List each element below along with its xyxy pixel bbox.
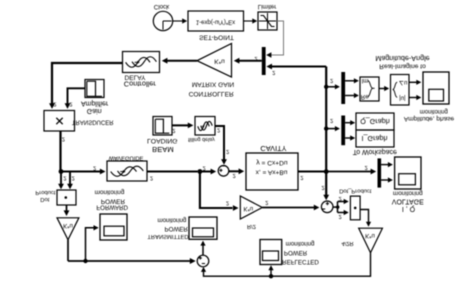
svg-text:2: 2 xyxy=(272,69,275,75)
svg-text:monitoring: monitoring xyxy=(157,216,186,223)
svg-text:TRANSMITTED: TRANSMITTED xyxy=(147,233,188,239)
svg-text:Controller: Controller xyxy=(124,80,157,89)
svg-text:monitoring: monitoring xyxy=(286,240,315,247)
svg-text:CONTROLLER: CONTROLLER xyxy=(189,90,234,97)
svg-text:2: 2 xyxy=(203,164,206,170)
svg-text:CAVITY: CAVITY xyxy=(260,144,286,153)
svg-text:x, = Ax+Bu: x, = Ax+Bu xyxy=(256,168,288,175)
svg-text:2: 2 xyxy=(69,100,72,106)
svg-text:2: 2 xyxy=(365,164,368,170)
svg-text:2: 2 xyxy=(93,165,96,171)
svg-text:BEAM: BEAM xyxy=(152,145,174,154)
svg-text:2: 2 xyxy=(300,174,303,180)
svg-text:REFLECTED: REFLECTED xyxy=(282,258,319,265)
svg-text:To Workspace: To Workspace xyxy=(353,148,397,155)
svg-text:Gain: Gain xyxy=(87,107,102,114)
svg-text:MATRIX GAIN: MATRIX GAIN xyxy=(192,81,235,88)
svg-text:Clock: Clock xyxy=(154,3,170,10)
svg-text:2: 2 xyxy=(330,77,333,83)
svg-text:I_Graph: I_Graph xyxy=(362,134,388,143)
svg-text:Amplitude, phase: Amplitude, phase xyxy=(404,115,455,122)
svg-text:2: 2 xyxy=(226,148,229,154)
svg-text:2: 2 xyxy=(53,101,56,107)
svg-text:filling delay: filling delay xyxy=(188,136,215,142)
svg-text:Magnitude-Angle: Magnitude-Angle xyxy=(375,54,429,63)
svg-text:FORWARD: FORWARD xyxy=(96,204,128,211)
svg-text:2: 2 xyxy=(339,195,342,201)
svg-text:Product: Product xyxy=(35,189,55,195)
svg-text:1-exp(-u/Y)*Ex: 1-exp(-u/Y)*Ex xyxy=(196,18,235,24)
svg-text:Q_Graph: Q_Graph xyxy=(360,117,390,126)
svg-text:2: 2 xyxy=(233,172,236,178)
svg-text:2: 2 xyxy=(217,126,220,132)
svg-text:2: 2 xyxy=(172,127,175,133)
svg-text:2: 2 xyxy=(62,136,65,142)
svg-text:WAVEGUIDE: WAVEGUIDE xyxy=(109,155,144,161)
svg-text:K*u: K*u xyxy=(214,58,225,65)
svg-text:LOADING: LOADING xyxy=(147,137,178,144)
svg-text:Dot_Product: Dot_Product xyxy=(339,188,372,194)
svg-text:VOLTAGE: VOLTAGE xyxy=(392,197,424,204)
svg-text:y = Cx+Du: y = Cx+Du xyxy=(256,159,287,166)
svg-text:2: 2 xyxy=(321,184,324,190)
svg-text:|u|: |u| xyxy=(399,94,406,100)
svg-text:Dot: Dot xyxy=(40,196,49,202)
svg-text:4/2R: 4/2R xyxy=(341,240,353,246)
svg-text:Amplifier: Amplifier xyxy=(81,100,109,107)
svg-text:POWER: POWER xyxy=(284,249,308,256)
svg-text:POWER: POWER xyxy=(101,198,126,205)
svg-text:K*u: K*u xyxy=(365,232,375,238)
svg-text:2: 2 xyxy=(150,174,153,180)
svg-text:monitoring: monitoring xyxy=(420,108,448,114)
svg-text:2: 2 xyxy=(265,199,268,205)
svg-text:K*u: K*u xyxy=(243,205,253,211)
svg-text:2: 2 xyxy=(339,213,342,219)
svg-text:2: 2 xyxy=(72,175,75,181)
svg-text:TRANSDUCER: TRANSDUCER xyxy=(72,118,114,124)
svg-text:2: 2 xyxy=(63,175,66,181)
svg-text:SET-POINT: SET-POINT xyxy=(199,34,234,41)
svg-text:∠u: ∠u xyxy=(399,79,408,86)
svg-text:I , Q: I , Q xyxy=(402,205,416,212)
svg-text:2: 2 xyxy=(226,200,229,206)
svg-text:Real-Imagine to: Real-Imagine to xyxy=(379,63,426,70)
svg-text:2: 2 xyxy=(330,117,333,123)
svg-text:Im: Im xyxy=(362,77,369,84)
svg-text:DELAY: DELAY xyxy=(124,74,146,81)
svg-text:R/2: R/2 xyxy=(247,223,256,229)
svg-text:monitoring: monitoring xyxy=(393,190,423,197)
svg-text:Limiter: Limiter xyxy=(258,3,277,10)
svg-text:POWER: POWER xyxy=(165,225,189,232)
svg-text:monitoring: monitoring xyxy=(95,189,125,196)
svg-text:K*u: K*u xyxy=(63,222,73,228)
